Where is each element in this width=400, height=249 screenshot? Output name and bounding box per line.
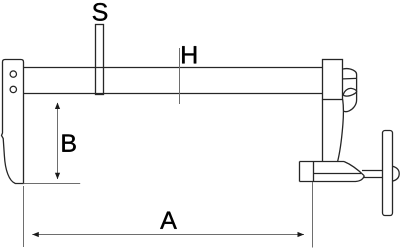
pin S cross-bar [96, 25, 104, 95]
spindle housing middle line [314, 173, 362, 175]
dimension B line [57, 103, 59, 179]
slider end plate lower lobe [343, 100, 356, 112]
slider arm right edge [338, 100, 344, 162]
dimension A line [32, 234, 304, 236]
dimension B top arrowhead [55, 103, 60, 110]
sliding jaw body [323, 60, 343, 100]
dimension A right arrowhead [298, 232, 305, 237]
extension line left [23, 186, 25, 247]
tick line H [179, 48, 181, 104]
screw end knob [393, 166, 400, 181]
extension line right [312, 182, 314, 248]
label A [160, 212, 177, 229]
screw shaft bottom line [363, 177, 382, 179]
spindle housing shoulder [344, 162, 364, 176]
fixed jaw hole 1 [10, 71, 16, 77]
pressure pad right edge [313, 162, 315, 182]
dimension A left arrowhead [32, 232, 39, 237]
slider end plate chord [343, 77, 357, 80]
dimension B bottom arrowhead [55, 173, 60, 180]
label B [62, 135, 75, 152]
fixed jaw outline [2, 60, 24, 184]
pressure pad left edge [299, 162, 301, 182]
label S [93, 3, 107, 21]
slider arm left edge [322, 100, 324, 162]
slider cam loop [343, 88, 356, 96]
screw shaft top line [362, 170, 382, 172]
reference line under pad [24, 183, 81, 185]
bar rail bottom edge [24, 93, 323, 95]
slider end plate dome [343, 69, 357, 100]
spindle housing top edge [300, 161, 345, 163]
label H [182, 46, 196, 63]
spindle housing bottom edge [300, 176, 365, 182]
bar rail top edge [24, 67, 323, 69]
T-handle bar [383, 131, 393, 216]
fixed jaw hole 2 [10, 86, 16, 92]
